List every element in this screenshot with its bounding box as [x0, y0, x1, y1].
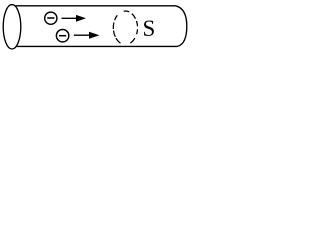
electron e1 (circled minus, upper): [45, 12, 57, 24]
wire: cylinder left end cap ellipse: [3, 5, 21, 49]
velocity arrow of electron e2: [74, 34, 91, 36]
velocity arrow of electron e1: [62, 17, 78, 19]
cross-section S (dashed ellipse): [113, 11, 137, 43]
electron e2 (circled minus, lower): [56, 30, 68, 42]
wire: cylinder body (top line, right cap, bottom line): [15, 6, 187, 47]
svg-text:S: S: [143, 16, 156, 41]
